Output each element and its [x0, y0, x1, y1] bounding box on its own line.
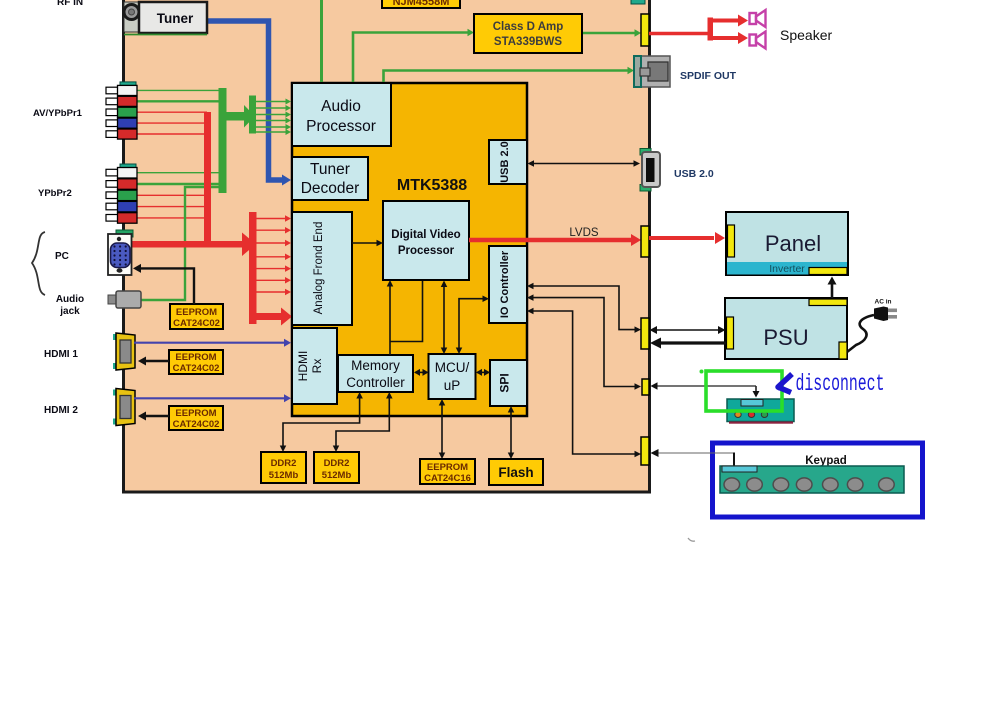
svg-text:AV/YPbPr1: AV/YPbPr1 — [33, 108, 83, 119]
svg-text:STA339BWS: STA339BWS — [494, 36, 562, 48]
svg-text:512Mb: 512Mb — [322, 470, 352, 481]
wire DVP to Memory Controller — [389, 284, 391, 355]
svg-text:USB 2.0: USB 2.0 — [674, 168, 714, 180]
wire green audio line YPbPr2 jack1 — [137, 172, 222, 174]
node AV/YPbPr1 RCA jack 3 — [106, 109, 119, 116]
svg-text:HDMI: HDMI — [296, 351, 310, 382]
capacitor Flash memory — [489, 459, 543, 485]
node stray pen mark — [688, 538, 695, 541]
svg-text:Panel: Panel — [765, 231, 821, 256]
wire green fan line 1 into Audio Processor — [256, 101, 286, 103]
wire green fan line 4 into Audio Processor — [256, 120, 286, 122]
node RF coax connector — [124, 2, 139, 32]
svg-text:Flash: Flash — [498, 465, 533, 480]
svg-text:MTK5388: MTK5388 — [397, 177, 467, 194]
wire IO Controller to PSU tab — [530, 286, 635, 330]
wire red fan line 6 into Analog Front End — [257, 279, 286, 281]
wire PSU thin double arrow to board — [652, 329, 722, 331]
svg-text:NJM4558M: NJM4558M — [393, 0, 450, 8]
node HDMI 2 connector — [113, 390, 122, 396]
wire EEPROM2 to HDMI1 — [145, 360, 169, 362]
capacitor NJM4558M audio op-amp box (cut off at top) — [382, 0, 460, 8]
wire Memory Controller to DDR2 #2 — [336, 396, 389, 447]
wire big green arrow into fan bus — [227, 112, 245, 121]
wire IO Controller to service tab — [530, 298, 635, 387]
node speaker icon bottom — [750, 32, 766, 49]
svg-text:EEPROM: EEPROM — [427, 462, 468, 473]
node AV/YPbPr1 RCA jack 4 — [106, 120, 119, 127]
wire MCU to IO Controller elbow — [459, 299, 483, 349]
node keypad edge tab — [641, 437, 649, 465]
wire red fan line 3 into Analog Front End — [257, 242, 286, 244]
svg-text:Decoder: Decoder — [301, 180, 360, 197]
node IO Controller — [489, 246, 527, 323]
node LVDS edge tab — [641, 226, 649, 257]
wire blue tuner IF to Tuner Decoder — [207, 21, 283, 180]
node AV/YPbPr1 RCA jack 1 — [106, 87, 119, 94]
wire service tab to connector — [653, 385, 756, 387]
wire green Audio Processor to SPDIF — [384, 71, 629, 84]
svg-text:CAT24C02: CAT24C02 — [173, 363, 220, 374]
node AV out connector sliver top edge — [631, 0, 645, 4]
svg-text:CAT24C02: CAT24C02 — [173, 419, 220, 430]
svg-text:CAT24C02: CAT24C02 — [173, 318, 220, 329]
node Digital Video Processor — [383, 201, 469, 280]
svg-text:512Mb: 512Mb — [269, 470, 299, 481]
node PC VGA connector teal cap — [116, 230, 133, 237]
node Panel — [726, 212, 848, 275]
node green highlight rectangle — [706, 371, 782, 411]
wire IO Controller to keypad tab — [530, 311, 635, 454]
svg-text:PSU: PSU — [763, 325, 808, 350]
node keypad button 3 — [773, 478, 789, 491]
node SPI — [490, 360, 527, 406]
wire red video bus bar 1 — [204, 112, 211, 247]
wire green fan line 5 into Audio Processor — [256, 126, 286, 128]
node speaker icon top — [750, 10, 766, 27]
wire green audio line YPbPr2 jack2 — [137, 183, 222, 185]
capacitor EEPROM CAT24C16 — [420, 459, 475, 484]
node USB 2.0 controller — [489, 140, 527, 184]
node keypad button 2 — [747, 478, 763, 491]
node PC VGA connector — [108, 234, 132, 275]
node YPbPr2 RCA jack 1 — [106, 169, 119, 176]
wire green Class D Amp to speaker tab — [582, 32, 635, 35]
node PSU — [725, 298, 847, 359]
svg-text:jack: jack — [59, 306, 80, 317]
node keypad button 4 — [796, 478, 812, 491]
wire Memory Controller to DDR2 #1 — [283, 396, 360, 447]
node PSU edge tab — [641, 318, 649, 349]
op-amp U1 MTK5388 main SoC block — [292, 83, 527, 416]
node USB 2.0 connector — [640, 149, 651, 156]
wire board outline (mainboard PCB) — [124, 0, 650, 492]
wire green fan line 3 into Audio Processor — [256, 114, 286, 116]
svg-text:uP: uP — [444, 378, 461, 393]
wire keypad tab to keypad — [653, 452, 734, 454]
svg-text:Tuner: Tuner — [157, 11, 194, 26]
node HDMI 1 connector — [113, 334, 122, 340]
svg-text:IO Controller: IO Controller — [499, 250, 511, 318]
node speaker out edge tab — [641, 14, 649, 46]
svg-text:PC: PC — [55, 251, 69, 262]
node keypad button 1 — [724, 478, 740, 491]
svg-text:Audio: Audio — [321, 98, 361, 115]
capacitor DDR2 512Mb #1 — [261, 452, 306, 483]
svg-text:Controller: Controller — [346, 375, 405, 390]
svg-text:HDMI 2: HDMI 2 — [44, 405, 78, 416]
svg-text:AC in: AC in — [875, 299, 892, 306]
svg-text:disconnect: disconnect — [796, 371, 885, 397]
wire green audio line AV1 jack2 — [137, 100, 222, 102]
svg-text:MCU/: MCU/ — [435, 360, 470, 375]
wire HDMI2 to HDMI Rx — [134, 397, 284, 399]
node audio jack connector — [108, 295, 118, 304]
node Tuner Decoder — [292, 157, 368, 200]
wire green fan line 2 into Audio Processor — [256, 107, 286, 109]
wire LVDS red link DVP to panel tab — [469, 238, 631, 243]
wire MCU to SPI double arrow — [477, 371, 489, 373]
node YPbPr2 RCA jack 4 — [106, 203, 119, 210]
svg-text:EEPROM: EEPROM — [175, 352, 216, 363]
svg-text:Tuner: Tuner — [310, 161, 350, 178]
node label disconnect — [796, 371, 885, 397]
wire red video line AV1 jack5 — [137, 133, 207, 135]
svg-text:Audio: Audio — [56, 294, 84, 305]
wire green audio line AV1 jack1 — [137, 89, 222, 91]
node label PC with brace — [32, 232, 45, 295]
wire EEPROM1 to VGA — [140, 268, 194, 304]
svg-text:RF IN: RF IN — [57, 0, 83, 8]
svg-text:EEPROM: EEPROM — [175, 408, 216, 419]
wire green audio bus bar — [219, 88, 227, 193]
wire red video line YPbPr2 jack5 — [137, 217, 207, 219]
wire green audio-jack feed — [141, 187, 219, 300]
node keypad blue frame — [713, 443, 923, 517]
wire red fan line 7 into Analog Front End — [257, 291, 286, 293]
wire AFE to DVP — [352, 242, 377, 244]
wire red video bus bar 2 — [249, 212, 257, 324]
wire thick red from VGA — [131, 241, 243, 248]
node keypad bar — [720, 466, 904, 493]
svg-text:EEPROM: EEPROM — [176, 307, 217, 318]
capacitor EEPROM CAT24C02 #3 (HDMI2) — [169, 406, 223, 430]
wire red video line AV1 jack4 — [137, 122, 207, 124]
svg-text:Memory: Memory — [351, 358, 400, 373]
node Tuner — [139, 2, 207, 33]
node service edge tab — [642, 379, 649, 395]
node Class D Amp STA339BWS — [474, 14, 582, 53]
node SPDIF OUT connector — [634, 56, 670, 87]
wire SPI to Flash double arrow — [510, 409, 512, 456]
svg-text:DDR2: DDR2 — [324, 458, 350, 469]
node service board — [727, 399, 794, 422]
node keypad button 7 — [879, 478, 895, 491]
svg-text:Rx: Rx — [310, 359, 324, 374]
svg-text:Speaker: Speaker — [780, 27, 832, 43]
wire green NJM4558M to Audio Processor — [320, 0, 323, 83]
wire red speaker feed — [649, 32, 712, 36]
wire red LVDS tab to Panel — [649, 236, 714, 240]
svg-text:SPI: SPI — [498, 373, 512, 392]
svg-text:Inverter: Inverter — [769, 263, 805, 275]
wire green under tuner — [124, 34, 207, 36]
wire USB controller to USB connector double arrow — [530, 163, 637, 165]
wire DVP jog to Memory Controller — [391, 281, 423, 342]
svg-text:Processor: Processor — [306, 118, 376, 135]
wire red fan line 2 into Analog Front End — [257, 229, 286, 231]
node MCU/uP — [429, 354, 476, 399]
node YPbPr2 RCA jack 2 — [106, 181, 119, 188]
svg-text:YPbPr2: YPbPr2 — [38, 188, 72, 199]
wire AC cable — [847, 315, 874, 352]
capacitor EEPROM CAT24C02 #1 (VGA DDC) — [170, 304, 223, 329]
capacitor DDR2 512Mb #2 — [314, 452, 359, 483]
svg-text:SPDIF OUT: SPDIF OUT — [680, 70, 737, 82]
svg-text:Class D Amp: Class D Amp — [493, 21, 564, 33]
wire DVP to MCU double arrow — [443, 285, 445, 350]
wire Memory Controller to MCU double arrow — [415, 371, 427, 373]
svg-text:HDMI 1: HDMI 1 — [44, 349, 78, 360]
node AV/YPbPr1 RCA jack 5 — [106, 131, 119, 138]
node Analog Frond End — [292, 212, 352, 325]
svg-text:Digital Video: Digital Video — [391, 229, 460, 241]
node AV/YPbPr1 RCA jack 2 — [106, 98, 119, 105]
node AV/YPbPr1 teal cap — [120, 82, 136, 89]
wire red fan line 5 into Analog Front End — [257, 268, 286, 270]
wire EEPROM3 to HDMI2 — [145, 415, 169, 417]
node Audio Processor — [292, 83, 391, 146]
wire HDMI1 to HDMI Rx — [134, 342, 284, 344]
wire green Audio Processor to Class D Amp — [353, 33, 469, 84]
wire PSU to inverter arrow — [831, 283, 834, 298]
wire red video line YPbPr2 jack4 — [137, 206, 207, 208]
wire thick red arrow into Analog Front End — [257, 313, 283, 320]
svg-text:LVDS: LVDS — [569, 227, 599, 239]
capacitor EEPROM CAT24C02 #2 (HDMI1) — [169, 350, 223, 374]
node keypad button 6 — [847, 478, 863, 491]
wire red fan line 1 into Analog Front End — [257, 218, 286, 220]
svg-text:Keypad: Keypad — [805, 455, 847, 467]
wire red video line YPbPr2 jack3 — [137, 194, 207, 196]
node YPbPr2 RCA jack 5 — [106, 215, 119, 222]
node YPbPr2 teal cap — [120, 164, 136, 171]
svg-text:USB 2.0: USB 2.0 — [499, 141, 511, 183]
node YPbPr2 RCA jack 3 — [106, 192, 119, 199]
wire red fan line 4 into Analog Front End — [257, 256, 286, 258]
svg-text:CAT24C16: CAT24C16 — [424, 473, 471, 484]
node Memory Controller — [338, 355, 413, 392]
wire PSU thick power line to board — [659, 341, 726, 344]
svg-text:Analog Frond End: Analog Frond End — [313, 222, 325, 315]
svg-text:DDR2: DDR2 — [271, 458, 297, 469]
wire green fan line 6 into Audio Processor — [256, 131, 286, 133]
wire green fan bus bar — [249, 96, 256, 134]
wire red video line AV1 jack3 — [137, 111, 207, 113]
svg-text:Processor: Processor — [398, 245, 455, 257]
node HDMI Rx — [292, 328, 337, 404]
node keypad button 5 — [823, 478, 839, 491]
wire MCU to EEPROM CAT24C16 double arrow — [441, 402, 443, 456]
node blue disconnect arrow — [778, 374, 792, 393]
